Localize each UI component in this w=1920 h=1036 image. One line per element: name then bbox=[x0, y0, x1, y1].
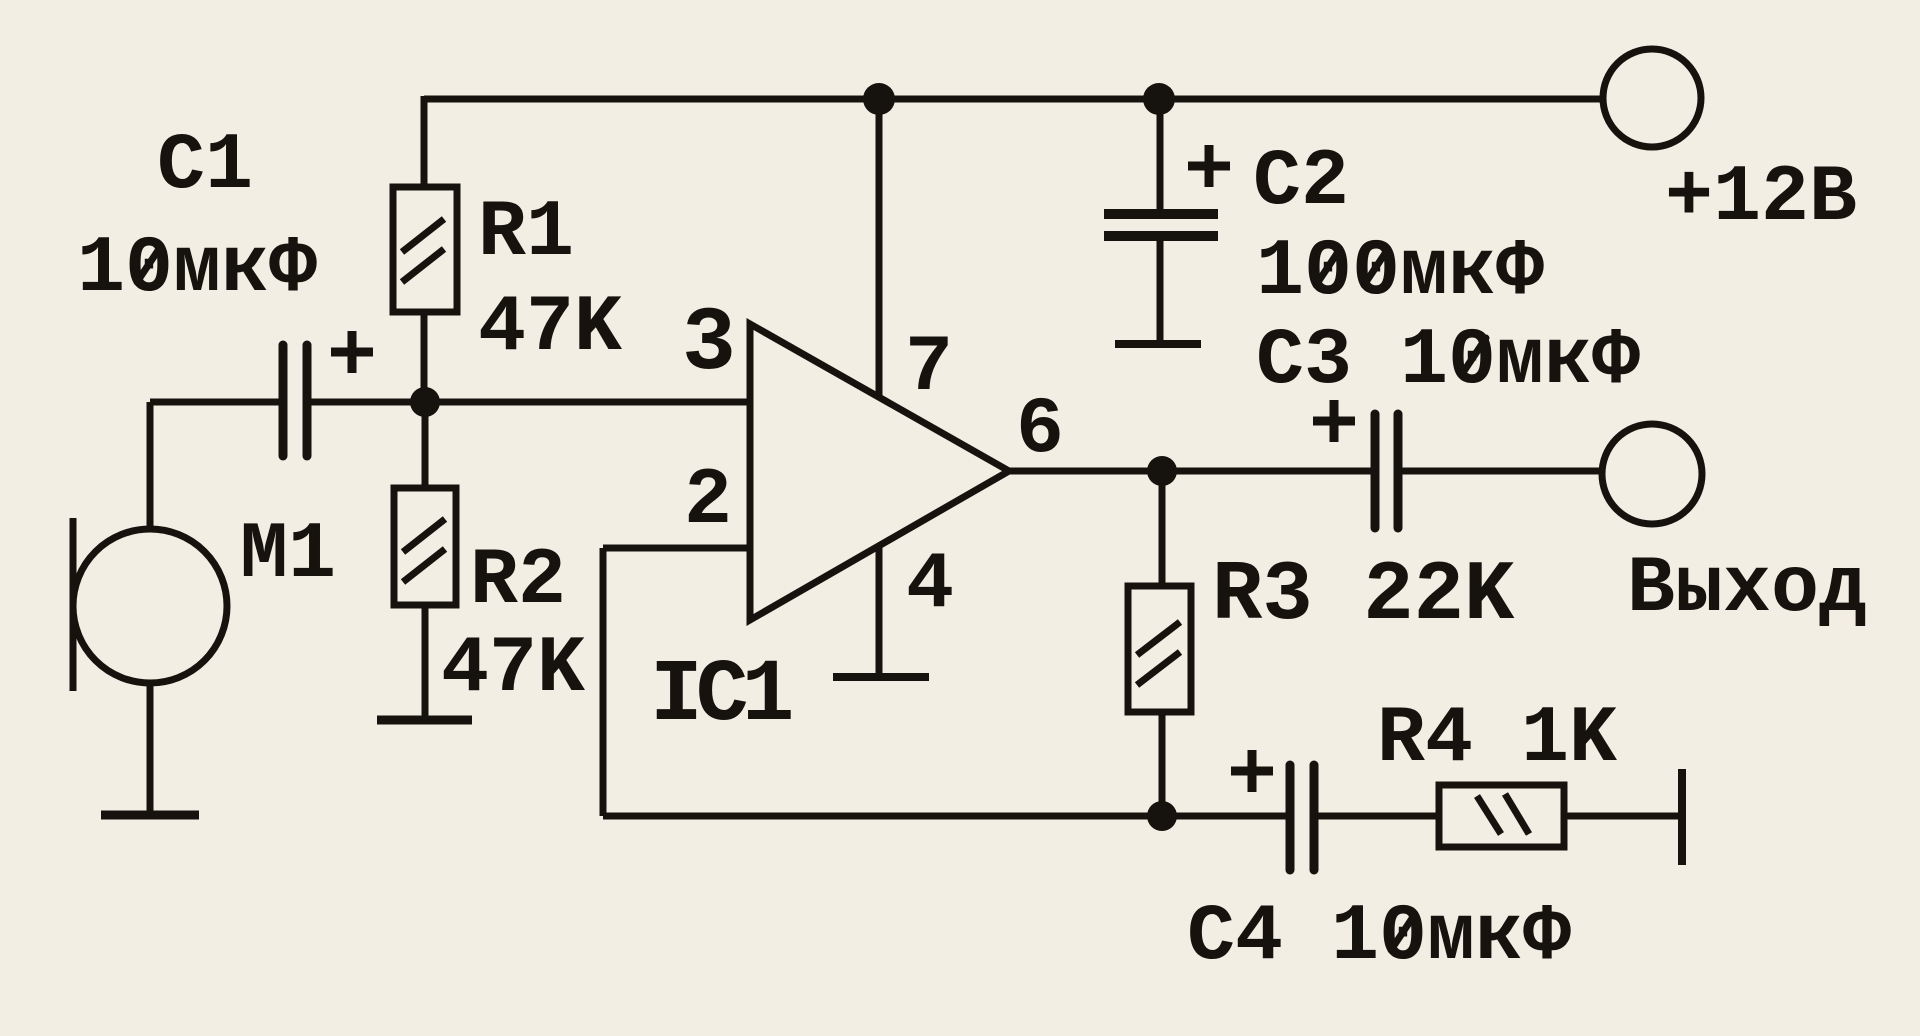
svg-text:C2: C2 bbox=[1253, 137, 1349, 228]
svg-text:C3 10мкФ: C3 10мкФ bbox=[1256, 316, 1640, 407]
svg-text:C4 10мкФ: C4 10мкФ bbox=[1187, 892, 1571, 983]
svg-text:C1: C1 bbox=[157, 121, 253, 212]
svg-text:3: 3 bbox=[682, 294, 736, 396]
svg-text:6: 6 bbox=[1016, 385, 1064, 476]
svg-text:Выход: Выход bbox=[1627, 544, 1867, 635]
svg-text:47K: 47K bbox=[478, 283, 623, 374]
svg-text:100мкФ: 100мкФ bbox=[1256, 227, 1544, 318]
svg-text:4: 4 bbox=[906, 540, 954, 631]
svg-text:47K: 47K bbox=[441, 624, 586, 715]
svg-text:IC1: IC1 bbox=[650, 647, 792, 746]
svg-text:R3 22K: R3 22K bbox=[1212, 549, 1515, 644]
svg-text:7: 7 bbox=[905, 323, 953, 414]
svg-text:R4 1K: R4 1K bbox=[1377, 694, 1618, 785]
svg-text:R1: R1 bbox=[478, 188, 574, 279]
svg-text:2: 2 bbox=[684, 456, 732, 547]
svg-text:M1: M1 bbox=[240, 510, 336, 601]
svg-text:10мкФ: 10мкФ bbox=[77, 224, 317, 315]
svg-text:+12В: +12В bbox=[1665, 153, 1857, 244]
svg-text:R2: R2 bbox=[470, 536, 566, 627]
